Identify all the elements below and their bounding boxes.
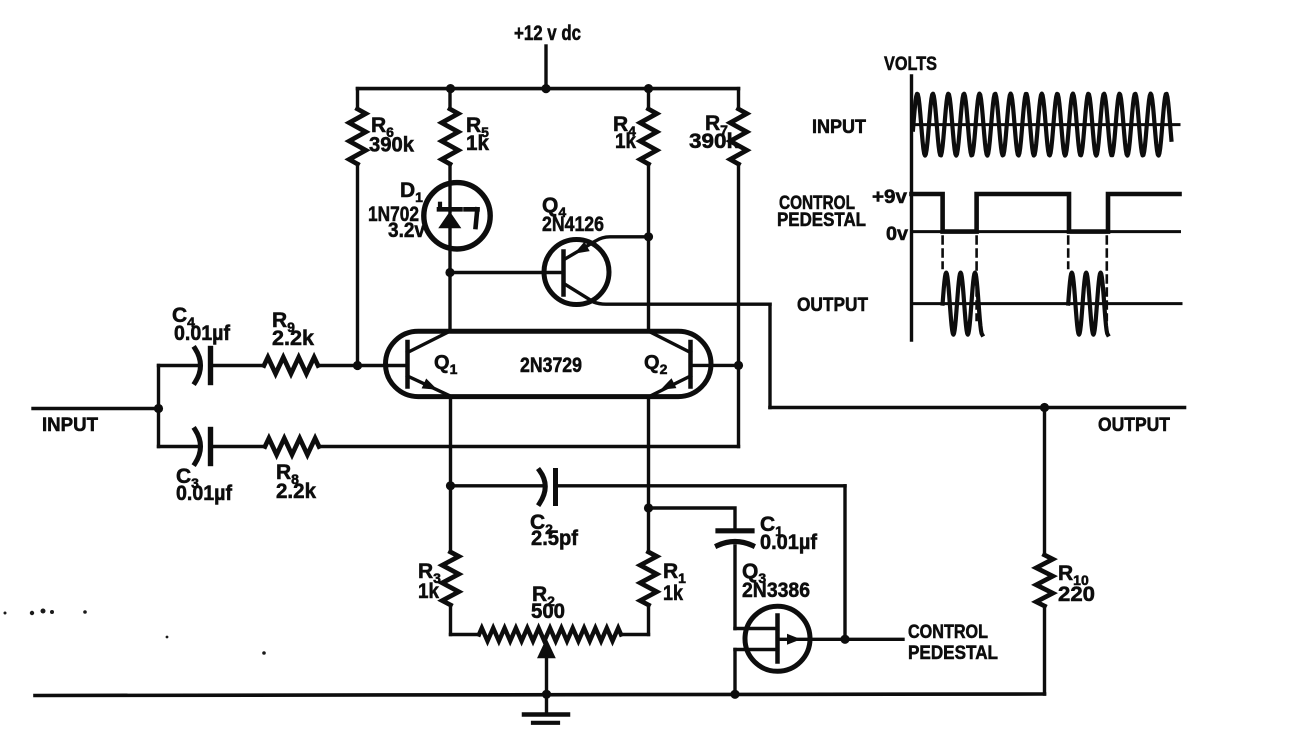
node R6/Q1 base junction [353,361,362,370]
wire Q4 collector corner to output [768,304,771,407]
svg-text:OUTPUT: OUTPUT [1098,415,1170,436]
svg-text:1k: 1k [663,582,683,605]
ground symbol [545,694,548,712]
scan speck dots [4,612,7,615]
wire lower branch to C3 [159,445,201,448]
wire Q4 emitter to R4 line [566,237,649,259]
resistor R9 2.2k [264,357,318,373]
wire Q2 base to R7 line [691,364,739,367]
svg-text:Q1: Q1 [434,352,458,377]
waveform axis VOLTS [884,54,937,75]
wire R1 node to C1 [649,508,736,529]
node input split [154,404,163,413]
wire C4 to R9 [211,364,265,367]
svg-text:2.5pf: 2.5pf [531,527,579,550]
svg-text:3.2v: 3.2v [388,219,425,242]
svg-text:2.2k: 2.2k [276,480,316,503]
svg-text:1k: 1k [615,130,636,153]
svg-text:0.01µf: 0.01µf [176,482,233,505]
svg-text:PEDESTAL: PEDESTAL [908,643,998,664]
wire C2 right down to Q3 gate node [843,486,846,640]
svg-text:D1: D1 [400,179,423,205]
wire Q1 emitter down to C2 node [449,397,452,486]
R2 wiper arrow [538,640,554,658]
waveform input sine [913,94,1171,156]
node R1 top / C1 branch junction [644,503,653,512]
node output/R10 junction [1040,403,1049,412]
wire OUTPUT line [770,406,1185,410]
resistor R1 1k [640,552,657,605]
dual transistor U 2N3729 package outline [386,331,712,396]
resistor R10 220 [1043,408,1046,556]
transistor Q2 (right half) [688,342,693,387]
node wiper/ground bus junction [542,690,551,699]
svg-text:0v: 0v [886,224,908,245]
resistor R6 390k [356,89,359,109]
wire Q4 collector to output corner [565,284,771,304]
capacitor C3 0.01uf [195,430,201,464]
capacitor C2 2.5pf [451,484,546,487]
svg-text:2N3729: 2N3729 [520,354,582,377]
waveform output burst 2 [1068,273,1108,335]
waveform dashed gate lines [941,237,944,269]
svg-text:1k: 1k [418,580,439,603]
wire Q2 emitter down to R1 [647,397,650,552]
svg-text:2N3386: 2N3386 [742,579,810,602]
wire R9 to Q1 base [318,364,408,367]
capacitor C4 0.01uf [195,349,201,383]
wire Q4 base [450,271,564,274]
transistor Q3 2N3386 (FET) [745,606,810,671]
node supply/R5 junction [446,84,455,93]
resistor R5 1k [448,89,451,109]
wire Q3 gate to control pedestal [778,638,904,641]
waveform input centerline [912,123,1180,126]
resistor R7 390k [737,89,740,109]
waveform output burst 1 [943,273,983,335]
node C2 left junction [446,481,455,490]
zener diode D1 1N702 3.2v [424,183,490,249]
waveform CONTROL PEDESTAL labels [777,187,908,245]
waveform 0v baseline [912,230,1180,233]
waveform output centerline [912,302,1182,305]
node D1/Q4 base junction [445,268,454,277]
transistor Q1 (left half) [405,342,410,387]
wire input branch vertical [157,366,160,447]
svg-text:INPUT: INPUT [42,415,98,436]
node Q4 emitter/R4 junction [644,232,653,241]
svg-text:1k: 1k [466,132,489,155]
svg-text:390k: 390k [369,134,414,157]
svg-text:0.01µf: 0.01µf [174,322,231,345]
svg-text:+12 v dc: +12 v dc [514,22,581,45]
CONTROL PEDESTAL terminal label [908,622,998,664]
potentiometer R2 500 [451,633,480,636]
wire R8 to R7 bottom [319,445,739,448]
node supply/R4 junction [644,84,653,93]
waveform OUTPUT label [797,295,868,316]
wire +12v supply lead [544,46,547,89]
svg-text:INPUT: INPUT [812,117,866,138]
+12 v dc supply label [514,22,581,45]
resistor R4 1k [647,89,650,109]
waveform control pedestal square wave [912,194,1180,232]
svg-text:2N4126: 2N4126 [542,213,604,236]
node Q3 source/ground junction [730,690,739,699]
resistor R8 2.2k [265,438,319,454]
resistor R3 1k [449,486,452,552]
svg-text:390k: 390k [689,130,739,153]
svg-text:+9v: +9v [872,187,907,208]
svg-text:OUTPUT: OUTPUT [797,295,868,316]
svg-text:2.2k: 2.2k [272,327,314,350]
wire C3 to R8 [211,445,266,448]
wire ground bus [35,694,1045,696]
node Q2 base/R7 junction [734,361,743,370]
node Q3 gate/C2 junction [840,635,849,644]
capacitor C1 0.01uf [718,528,752,533]
waveform INPUT label [812,117,866,138]
wire Q3 source to ground bus [733,650,736,695]
svg-text:500: 500 [531,600,565,623]
svg-text:PEDESTAL: PEDESTAL [777,210,866,231]
svg-text:0.01µf: 0.01µf [760,531,818,554]
wire top supply bus [358,87,739,91]
svg-text:VOLTS: VOLTS [884,54,937,75]
svg-text:CONTROL: CONTROL [908,622,988,643]
wire upper branch to C4 [159,364,201,367]
wire INPUT lead [33,407,159,410]
svg-text:220: 220 [1058,583,1095,606]
svg-text:Q2: Q2 [644,352,668,377]
transistor Q4 2N4126 (PNP) [544,240,609,305]
node supply center junction [541,84,550,93]
